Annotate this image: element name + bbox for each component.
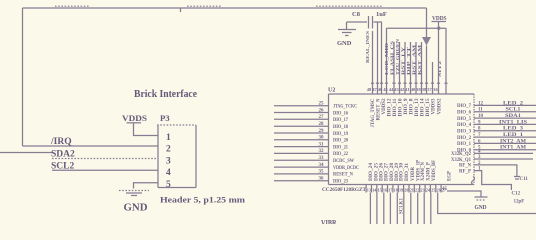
svg-text:TZU_GRUEN: TZU_GRUEN xyxy=(395,38,400,75)
wire: U2 left pin 31 xyxy=(274,146,329,148)
svg-text:35: 35 xyxy=(319,170,325,175)
svg-text:26: 26 xyxy=(319,108,325,113)
wire: U2 bottom stub pin 26 xyxy=(435,185,437,193)
svg-text:LCD_MID: LCD_MID xyxy=(384,43,389,75)
ground GND below header xyxy=(119,191,149,214)
wire: pin tick top at 405 xyxy=(403,82,406,84)
wire: U2 right pin 6 to net INT2_AM xyxy=(474,142,536,144)
svg-text:VDDS: VDDS xyxy=(122,113,147,123)
svg-text:5: 5 xyxy=(166,180,171,190)
svg-text:VDDS_BF: VDDS_BF xyxy=(432,160,437,181)
svg-text:13: 13 xyxy=(367,188,371,193)
wire: tick on top border xyxy=(180,8,182,12)
power VDDS symbol top right xyxy=(432,15,447,94)
svg-text:VDDR_DCDC: VDDR_DCDC xyxy=(333,166,359,171)
svg-text:INT1_AM: INT1_AM xyxy=(500,145,527,151)
svg-text:DIO_14: DIO_14 xyxy=(421,98,426,117)
wire: pin tick top at 446 xyxy=(444,82,447,84)
svg-text:RST_LY: RST_LY xyxy=(401,46,406,75)
svg-text:DIO_11: DIO_11 xyxy=(393,98,398,117)
svg-text:36: 36 xyxy=(319,177,325,182)
wire: pin tick top at 421.5 xyxy=(420,82,423,84)
svg-text:X32K_Q2: X32K_Q2 xyxy=(451,152,471,157)
svg-text:15: 15 xyxy=(378,188,382,193)
svg-text:INT2_AM: INT2_AM xyxy=(500,138,527,144)
wire: pin tick top at 426.5 xyxy=(425,82,428,84)
wire: U2 right pin 2 RF_N xyxy=(474,165,517,176)
svg-text:1: 1 xyxy=(166,133,171,143)
svg-text:DIO_13: DIO_13 xyxy=(415,98,420,117)
wire: U2 right pin 5 to net INT1_AM xyxy=(474,149,536,151)
svg-text:GND: GND xyxy=(475,205,487,211)
wire: U2 left pin 30 xyxy=(274,139,329,141)
svg-text:RF_P: RF_P xyxy=(459,169,471,174)
wire: U2 left pin 28 xyxy=(274,125,329,127)
ground GND at EGP pad xyxy=(447,191,488,211)
wire: top vertical net 1 xyxy=(372,31,374,94)
wire: below power arrow into U2 top xyxy=(426,46,428,95)
svg-text:DIO_2: DIO_2 xyxy=(457,136,471,141)
svg-text:DIO_31: DIO_31 xyxy=(405,162,410,181)
wire: top vertical net 11 xyxy=(432,62,434,94)
wire: pin tick top at 416 xyxy=(414,82,417,84)
svg-text:VIBR: VIBR xyxy=(321,218,337,225)
wire: U2 bottom stub pin 19 xyxy=(397,185,399,193)
svg-text:19: 19 xyxy=(399,188,403,193)
svg-text:12: 12 xyxy=(478,101,484,106)
connector P3 header outline xyxy=(158,125,196,188)
svg-text:JTAG_TCKC: JTAG_TCKC xyxy=(333,105,357,110)
svg-text:20: 20 xyxy=(404,188,408,193)
svg-text:18: 18 xyxy=(394,188,398,193)
svg-text:SCLK1: SCLK1 xyxy=(400,198,405,214)
wire: pin tick top at 394 xyxy=(392,82,395,84)
svg-text:RESET_N: RESET_N xyxy=(333,173,353,178)
svg-text:DIO_30: DIO_30 xyxy=(400,162,405,181)
wire: U2 bottom stub pin 18 xyxy=(392,185,394,193)
svg-text:C12: C12 xyxy=(512,192,521,197)
wire: U2 right pin 7 to net LED_1 xyxy=(474,136,536,138)
wire: U2 left pin 35 xyxy=(274,173,329,175)
wire: top vertical net 6 xyxy=(399,42,401,94)
wire: U2 bottom stub pin 21 xyxy=(408,185,410,193)
svg-text:34: 34 xyxy=(319,163,325,168)
svg-text:SDA1: SDA1 xyxy=(505,113,521,119)
wire: U2 bottom stub pin 14 xyxy=(371,185,373,193)
svg-text:DIO_3: DIO_3 xyxy=(457,130,471,135)
wire: U2 bottom stub pin 16 xyxy=(381,185,383,193)
wire: top vertical net 8 xyxy=(410,42,412,94)
wire: U2 bottom stub pin 15 xyxy=(376,185,378,193)
ground GND left of C8 xyxy=(337,22,356,47)
wire: VDDS horizontal rail y28 xyxy=(387,27,447,29)
svg-text:DIP_TT: DIP_TT xyxy=(406,47,411,75)
svg-text:23: 23 xyxy=(420,188,424,193)
op IC U2 outline CC2650 xyxy=(329,94,475,185)
svg-text:X24M_P: X24M_P xyxy=(427,162,432,181)
capacitor C12 xyxy=(512,192,525,205)
wire: bottom vertical net 9 xyxy=(423,193,425,225)
svg-text:VDDR: VDDR xyxy=(411,167,416,181)
svg-text:RST_AM: RST_AM xyxy=(412,44,417,75)
wire: left vertical /IRQ run from top border down xyxy=(22,8,24,146)
wire: pin tick top at 399.5 xyxy=(398,82,401,84)
svg-text:DIO_15: DIO_15 xyxy=(426,98,431,117)
svg-text:10: 10 xyxy=(478,114,484,119)
capacitor C8 top decoupling xyxy=(347,11,387,29)
wire: top vertical net 12 xyxy=(445,28,447,94)
svg-text:17: 17 xyxy=(388,188,392,193)
wire: bottom vertical net 8 xyxy=(417,193,419,225)
svg-text:LED_2: LED_2 xyxy=(503,100,523,106)
wire: corner from top net down to power arrow xyxy=(426,8,428,37)
wire: U2 right pin 11 to net SCL1 xyxy=(474,111,536,113)
svg-text:P3: P3 xyxy=(160,113,170,123)
svg-text:Header 5, p1.25 mm: Header 5, p1.25 mm xyxy=(160,195,246,205)
wire: SDA2 stub from sheet left edge xyxy=(0,152,52,154)
svg-text:27: 27 xyxy=(319,115,325,120)
svg-text:KST_AM: KST_AM xyxy=(417,44,422,75)
wire: bottom vertical net 5 xyxy=(396,193,398,225)
wire: bottom vertical net 10 xyxy=(430,193,432,225)
svg-text:DIO_9: DIO_9 xyxy=(404,98,409,115)
svg-text:29: 29 xyxy=(319,129,325,134)
svg-text:JTAG_TMSC: JTAG_TMSC xyxy=(371,98,376,127)
wire: U2 right pin 1 RF_P xyxy=(474,171,511,190)
wire: U2 right pin 9 to net INT1_LIS xyxy=(474,123,536,125)
svg-text:41: 41 xyxy=(405,87,409,92)
svg-text:DIO_17: DIO_17 xyxy=(333,118,348,123)
svg-text:30: 30 xyxy=(319,136,325,141)
svg-text:DIO_23: DIO_23 xyxy=(333,180,348,185)
wire: SCL2 horizontal into header pin 4 xyxy=(52,169,158,171)
wire: dotted border segment 2 xyxy=(187,5,222,7)
wire: pin tick top at 386.5 xyxy=(385,82,388,84)
svg-text:Brick Interface: Brick Interface xyxy=(134,89,197,100)
svg-text:16: 16 xyxy=(383,188,387,193)
wire: pin tick top at 438.5 xyxy=(437,82,440,84)
wire: top vertical net 3 xyxy=(381,22,383,94)
svg-text:2: 2 xyxy=(166,145,171,155)
wire: U2 bottom stub pin 17 xyxy=(387,185,389,193)
wire: U2 left pin 27 xyxy=(274,118,329,120)
svg-text:GND: GND xyxy=(337,40,352,47)
svg-text:21: 21 xyxy=(410,188,414,193)
svg-text:U2: U2 xyxy=(328,88,335,94)
wire: top vertical net 9 xyxy=(415,42,417,94)
wire: U2 right pin 10 to net SDA1 xyxy=(474,117,536,119)
wire: U2 right pin 3 X32K_Q1 xyxy=(474,158,533,160)
wire: bottom vertical net 3 xyxy=(383,193,385,225)
svg-text:SCL1: SCL1 xyxy=(506,107,521,113)
svg-text:12pF: 12pF xyxy=(514,200,525,205)
svg-text:DIO_7: DIO_7 xyxy=(457,104,471,109)
svg-text:45: 45 xyxy=(442,187,448,192)
wire: U2 left pin 26 xyxy=(274,112,329,114)
svg-text:33: 33 xyxy=(319,156,325,161)
svg-text:X24M_N: X24M_N xyxy=(421,162,426,181)
wire: U2 left pin 32 xyxy=(274,152,329,154)
wire: /IRQ horizontal into header pin 2 xyxy=(23,145,159,147)
wire: top vertical net 10 xyxy=(421,42,423,94)
svg-text:28: 28 xyxy=(319,122,325,127)
svg-text:DCDC_SW: DCDC_SW xyxy=(333,159,354,164)
wire: U2 bottom stub pin 25 xyxy=(429,185,431,193)
svg-text:C8: C8 xyxy=(352,11,361,18)
svg-text:LED_1: LED_1 xyxy=(503,132,523,138)
power VDDS symbol above header pin 1 xyxy=(122,113,158,136)
wire: U2 bottom stub pin 13 xyxy=(365,185,367,193)
svg-text:GND: GND xyxy=(124,203,148,214)
svg-text:25: 25 xyxy=(431,188,435,193)
wire: bottom vertical net 7 xyxy=(410,193,412,225)
svg-text:REAL_INES: REAL_INES xyxy=(365,30,370,63)
wire: bottom vertical net corner to right edge xyxy=(438,193,536,214)
svg-text:DIO_1: DIO_1 xyxy=(457,142,471,147)
wire: dotted border segment 3 xyxy=(316,5,382,7)
wire: U2 left pin 29 xyxy=(274,132,329,134)
node junction dot VDDS xyxy=(437,27,440,30)
wire: U2 bottom stub pin 20 xyxy=(403,185,405,193)
wire: U2 right pin 12 to net LED_2 xyxy=(474,104,536,106)
wire: top vertical net 4 xyxy=(386,28,388,94)
svg-text:3: 3 xyxy=(166,156,171,166)
wire: bottom vertical net 4 xyxy=(389,193,391,225)
svg-text:32: 32 xyxy=(319,149,325,154)
svg-text:DIO_8: DIO_8 xyxy=(410,98,415,115)
svg-text:VDDS2: VDDS2 xyxy=(382,98,387,114)
wire: pin tick top at 432.5 xyxy=(431,82,434,84)
svg-text:25: 25 xyxy=(319,102,325,107)
svg-text:/IRQ: /IRQ xyxy=(50,137,72,147)
wire: SDA2 dotted segment to header pin 3 xyxy=(52,158,158,160)
svg-text:DIO_10: DIO_10 xyxy=(399,98,404,117)
wire: top vertical net 7 xyxy=(404,42,406,94)
svg-text:X32K_Q1: X32K_Q1 xyxy=(451,158,471,163)
svg-text:DIO_24: DIO_24 xyxy=(369,162,374,181)
wire: U2 left pin 36 xyxy=(274,180,329,182)
wire: top horizontal net from left edge to VDDS corner xyxy=(23,7,427,9)
wire: U2 left pin 33 xyxy=(274,159,329,161)
svg-text:DIO_4: DIO_4 xyxy=(457,123,471,128)
svg-text:31: 31 xyxy=(319,142,325,147)
wire: U2 left pin 34 xyxy=(274,166,329,168)
wire: U2 bottom stub pin 27 xyxy=(440,185,442,193)
svg-text:VDDS2: VDDS2 xyxy=(438,98,443,114)
svg-text:LED_3: LED_3 xyxy=(503,126,523,132)
svg-text:42: 42 xyxy=(400,87,404,92)
svg-text:DIO_19: DIO_19 xyxy=(333,132,348,137)
svg-text:DIO_6: DIO_6 xyxy=(457,111,471,116)
wire: pin tick top at 377.5 xyxy=(376,82,379,84)
svg-text:DIO_16: DIO_16 xyxy=(333,111,348,116)
capacitor C11 marks xyxy=(514,176,520,178)
svg-text:26: 26 xyxy=(437,188,441,193)
wire: U2 bottom stub pin 23 xyxy=(419,185,421,193)
wire: bottom vertical net 6 xyxy=(403,193,405,225)
wire: U2 bottom stub pin 24 xyxy=(424,185,426,193)
svg-text:DIO_12: DIO_12 xyxy=(388,98,393,117)
svg-text:RESET_N: RESET_N xyxy=(377,98,382,120)
wire: bottom vertical net 2 xyxy=(376,193,378,225)
svg-text:4: 4 xyxy=(166,168,171,178)
wire: pin tick top at 410.5 xyxy=(409,82,412,84)
svg-text:INT1_LIS: INT1_LIS xyxy=(499,119,527,125)
wire: header pin 5 to ground xyxy=(134,183,159,189)
wire: U2 left pin 25 xyxy=(274,105,329,107)
crystal Y2 squiggle xyxy=(472,177,475,185)
svg-text:DIO_22: DIO_22 xyxy=(333,152,348,157)
wire: dotted border segment 1 xyxy=(55,5,90,7)
wire: bottom vertical net 1 xyxy=(369,193,371,225)
svg-text:C11: C11 xyxy=(520,177,529,182)
svg-text:DIO_21: DIO_21 xyxy=(333,145,348,150)
svg-text:DIO_18: DIO_18 xyxy=(333,125,348,130)
svg-text:22: 22 xyxy=(415,188,419,193)
svg-text:FLASH_CS: FLASH_CS xyxy=(390,40,395,75)
wire: U2 bottom stub pin 22 xyxy=(413,185,415,193)
svg-text:11: 11 xyxy=(478,108,483,113)
svg-text:DIO_5: DIO_5 xyxy=(457,117,471,122)
wire: pin tick top at 381.5 xyxy=(380,82,383,84)
wire: pin tick top at 372.5 xyxy=(371,82,374,84)
svg-text:CC2650F128RGZT: CC2650F128RGZT xyxy=(322,187,366,193)
power arrow triangle onto VDDS rail xyxy=(422,37,431,46)
svg-text:DIO_20: DIO_20 xyxy=(333,139,348,144)
wire: U2 right pin 8 to net LED_3 xyxy=(474,130,536,132)
svg-text:RF_N: RF_N xyxy=(459,164,471,169)
wire: top vertical net 2 xyxy=(377,22,379,94)
svg-text:VDDS3: VDDS3 xyxy=(432,98,437,114)
wire: U2 right pin 4 X32K_Q2 xyxy=(474,152,533,154)
svg-text:1uF: 1uF xyxy=(376,11,387,18)
svg-text:EGP: EGP xyxy=(447,171,452,181)
wire: top vertical net 5 xyxy=(393,42,395,94)
